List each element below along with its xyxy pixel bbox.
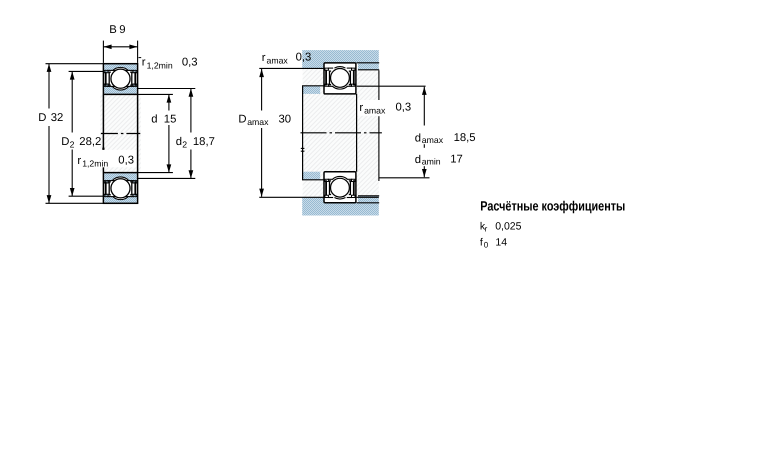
svg-text:r: r [77, 155, 81, 167]
svg-text:amax: amax [364, 106, 386, 116]
svg-text:9: 9 [119, 24, 125, 36]
housing bottom bore line left / Da bottom extension [259, 196, 379, 198]
right bearing bottom section [324, 172, 356, 203]
label damax 18,5 [415, 132, 476, 145]
left bearing top section (outer ring, ball, seals, inner ring) [103, 64, 137, 95]
housing top block [302, 50, 379, 69]
label r1,2min 0,3 top [142, 57, 198, 71]
dimension D2 extension lines [69, 71, 104, 196]
svg-text:18,7: 18,7 [193, 136, 215, 148]
svg-text:0: 0 [484, 241, 489, 250]
housing bottom shoulder line right [358, 195, 379, 197]
dimension d2 extension lines [138, 89, 196, 179]
right bearing top section [324, 63, 356, 94]
dimension Damax line with arrows [259, 69, 264, 197]
right figure hatch band (shaft and housing gap) [303, 68, 379, 197]
dimension B line with arrows [103, 44, 137, 49]
svg-text:d: d [151, 114, 157, 126]
dimension d extension lines [138, 94, 173, 172]
svg-text:d: d [415, 133, 421, 145]
dimension damax bottom extension [379, 177, 430, 179]
label d 15 [151, 114, 176, 126]
svg-text:D: D [38, 112, 46, 124]
dimension D2 line with arrows [70, 71, 75, 196]
svg-text:D: D [61, 136, 69, 148]
svg-text:1,2min: 1,2min [82, 159, 108, 169]
dimension damax top extension [357, 85, 426, 87]
svg-text:0,3: 0,3 [396, 102, 412, 114]
svg-text:amax: amax [422, 135, 444, 145]
svg-text:30: 30 [279, 114, 292, 126]
svg-text:d: d [176, 136, 182, 148]
dimension damax/damin line with arrows [422, 87, 427, 178]
svg-text:28,2: 28,2 [79, 136, 101, 148]
svg-text:r: r [485, 225, 488, 234]
housing top shoulder line right [358, 69, 379, 71]
svg-text:D: D [238, 114, 246, 126]
left bearing bottom section (inner ring, ball, seals, outer ring) [103, 173, 137, 204]
svg-text:2: 2 [70, 140, 75, 150]
svg-text:0,3: 0,3 [296, 52, 312, 64]
label ramax 0,3 top [262, 52, 312, 66]
leader dot for mid r label [102, 148, 104, 150]
svg-text:14: 14 [495, 236, 507, 248]
svg-text:amax: amax [247, 117, 269, 127]
label D 32 [38, 112, 63, 124]
label D2 28,2 [61, 136, 101, 150]
label kr 0,025 [480, 220, 522, 233]
svg-text:32: 32 [51, 112, 64, 124]
dimension d line with arrows [167, 94, 172, 172]
svg-text:0,025: 0,025 [495, 220, 521, 232]
svg-text:B: B [109, 24, 117, 36]
shaft left edge line [302, 86, 304, 180]
shaft break marks [301, 148, 305, 151]
svg-text:amax: amax [267, 56, 289, 66]
svg-text:17: 17 [450, 154, 463, 166]
svg-text:1,2min: 1,2min [147, 60, 173, 70]
r_amax extension line vertical [378, 70, 380, 181]
label d2 18,7 [176, 136, 215, 150]
label Damax 30 [238, 114, 291, 128]
svg-text:15: 15 [164, 114, 177, 126]
label f0 14 [480, 236, 507, 249]
shaft shoulder bottom (blue) [302, 172, 325, 180]
label r1,2min 0,3 middle [77, 154, 134, 168]
dimension D extension lines [46, 64, 104, 204]
right figure centerline [301, 132, 382, 134]
svg-text:Расчётные коэффициенты: Расчётные коэффициенты [480, 198, 625, 213]
svg-text:amin: amin [422, 156, 441, 166]
svg-text:2: 2 [182, 140, 187, 150]
shaft shoulder top (blue) [302, 86, 325, 94]
label ramax 0,3 right [359, 102, 411, 116]
left bearing outline [103, 64, 137, 204]
shaft right edge line [356, 94, 358, 172]
housing top bore line left / Da top extension [259, 67, 324, 69]
label damin 17 [415, 154, 463, 167]
left figure centerline [101, 133, 140, 135]
svg-text:0,3: 0,3 [182, 57, 198, 69]
svg-text:r: r [262, 52, 266, 64]
svg-text:d: d [415, 154, 421, 166]
svg-text:r: r [359, 102, 363, 114]
svg-text:0,3: 0,3 [118, 154, 134, 166]
leader tick for top r label [139, 57, 142, 59]
white backing for right r_amax label [358, 100, 415, 116]
housing bottom seat line right [357, 202, 380, 204]
svg-text:f: f [480, 236, 483, 248]
white backing for mid r label [74, 150, 137, 168]
label B 9 [109, 24, 125, 36]
svg-text:r: r [142, 57, 146, 69]
dimension D line with arrows [47, 64, 52, 204]
left figure shaft hatch band [100, 94, 141, 172]
dimension d2 line with arrows [189, 89, 194, 179]
housing bottom block [302, 196, 379, 215]
dimension B extension lines [103, 41, 137, 63]
svg-text:18,5: 18,5 [454, 132, 476, 144]
housing top seat line right [357, 62, 380, 64]
